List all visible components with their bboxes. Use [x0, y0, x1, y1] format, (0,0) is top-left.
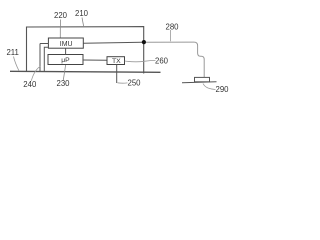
svg-text:μP: μP [61, 57, 70, 64]
node junction dot [142, 40, 146, 44]
svg-text:210: 210 [75, 9, 89, 18]
wire IMU to uP [65, 48, 67, 54]
TX 260 box [107, 57, 125, 65]
leader 220 [59, 20, 61, 38]
leader 250 [118, 82, 128, 84]
svg-text:280: 280 [165, 22, 179, 31]
electrode 290 [195, 77, 210, 81]
uP 230 box [48, 55, 83, 65]
svg-text:250: 250 [127, 79, 141, 88]
svg-text:230: 230 [56, 79, 70, 88]
electrode wire 250 [116, 65, 118, 84]
wire uP to TX [83, 59, 107, 61]
svg-text:260: 260 [155, 56, 169, 65]
wire IMU to node [83, 42, 142, 43]
svg-text:220: 220 [54, 11, 68, 20]
leader 211 [14, 57, 20, 71]
leader 290 [203, 84, 216, 90]
svg-text:290: 290 [215, 85, 229, 94]
svg-text:IMU: IMU [60, 41, 73, 48]
electrode lead 240 left [40, 44, 48, 72]
svg-text:240: 240 [23, 80, 37, 89]
leader 230 [63, 65, 65, 80]
wire 280 to electrode 290 [146, 42, 204, 77]
skin line 211 [10, 71, 161, 72]
housing 210 [27, 27, 144, 74]
leader 260 [125, 60, 156, 61]
IMU 220 box [48, 38, 83, 48]
skin segment under electrode 290 [182, 82, 217, 83]
leader 280 [170, 30, 172, 41]
leader 240 [31, 66, 40, 81]
leader 210 [82, 18, 84, 27]
electrode lead 240 right [44, 47, 48, 71]
svg-text:211: 211 [6, 48, 18, 57]
svg-text:TX: TX [112, 58, 121, 65]
